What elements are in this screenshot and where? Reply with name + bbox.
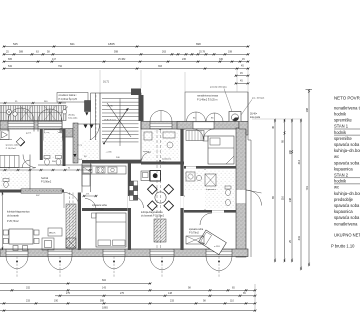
- south window SW5 axis dashed: [218, 257, 220, 278]
- svg-text:kuhinja-blagovaonica: kuhinja-blagovaonica: [7, 211, 30, 214]
- staircase east wall dark: [139, 95, 144, 121]
- entry door header line: [78, 123, 100, 125]
- svg-text:233: 233: [26, 300, 31, 303]
- dining chairs: [3, 230, 8, 235]
- south window SW4: [150, 251, 174, 256]
- bed1 double: [96, 213, 126, 247]
- svg-text:natkriveni: natkriveni: [162, 158, 171, 161]
- svg-text:STAN 2: STAN 2: [334, 173, 349, 178]
- dimension stub top row 6: [236, 82, 248, 84]
- door gap bath2 north: [186, 166, 196, 168]
- svg-text:P 14,61m2: P 14,61m2: [6, 148, 17, 150]
- dimension line right v3: [291, 119, 293, 262]
- predsoblje dotted floor: [185, 190, 205, 209]
- nightstand bed2: [203, 136, 208, 141]
- svg-text:kupaonica: kupaonica: [334, 166, 353, 171]
- door arc bath1: [22, 160, 30, 168]
- left edge vertical dim line: [2, 192, 4, 250]
- wall below wc pair: [38, 164, 92, 166]
- bed spavaca1 striped: [0, 156, 19, 168]
- south window SW1 axis dashed: [16, 257, 18, 278]
- bath partition line 2: [0, 167, 30, 169]
- extension line stair east: [140, 70, 142, 88]
- south window SW3: [103, 251, 125, 256]
- kitchen1 counter: [82, 166, 126, 174]
- east wall corner diagonal: [239, 122, 248, 136]
- svg-text:g=171: g=171: [26, 133, 31, 135]
- svg-text:275: 275: [120, 292, 125, 295]
- dimension stub top row 5: [236, 75, 248, 77]
- svg-text:kupaonica: kupaonica: [334, 209, 353, 214]
- annotation box omedjena trava: [57, 93, 88, 103]
- svg-text:263: 263: [162, 51, 167, 54]
- bed2 top right room: [208, 136, 234, 164]
- terrace strip diagonal braces: [20, 106, 56, 121]
- window W1 in north wall: [8, 123, 34, 128]
- wardrobe left edge with triangle: [0, 130, 9, 140]
- nightstand bed1: [92, 213, 97, 218]
- svg-text:169: 169: [32, 168, 35, 170]
- wall stan2 entry vertical: [180, 129, 183, 250]
- south window SW1 swing arcs: [6, 257, 17, 270]
- extension line right top: [252, 118, 302, 120]
- svg-text:UKUPNO NETO: UKUPNO NETO: [334, 233, 360, 238]
- svg-text:545: 545: [13, 42, 18, 46]
- dining table: [9, 229, 33, 244]
- north wall east segment: [141, 122, 185, 130]
- south window SW3 axis dashed: [113, 257, 115, 278]
- kitchen1 lower cabinet: [82, 174, 90, 186]
- svg-text:417: 417: [52, 58, 57, 61]
- dimension line bottom total 1865: [0, 310, 255, 312]
- svg-text:spavaća soba: spavaća soba: [92, 204, 107, 207]
- svg-text:P brutto 1.10: P brutto 1.10: [331, 244, 355, 249]
- south window SW4 swing arcs: [150, 257, 162, 270]
- svg-text:598: 598: [114, 51, 119, 54]
- svg-text:P 10,55m2: P 10,55m2: [92, 208, 104, 211]
- entry door leaf triangle 2: [90, 125, 94, 129]
- svg-text:kota poda: kota poda: [250, 116, 261, 119]
- svg-text:P 2,03m2 Šp 0,25: P 2,03m2 Šp 0,25: [59, 98, 78, 101]
- svg-text:90: 90: [68, 168, 70, 170]
- staircase top pier dark: [131, 89, 141, 96]
- svg-text:poc. dimnjak: poc. dimnjak: [252, 98, 265, 100]
- svg-text:28,40=: 28,40=: [250, 114, 258, 116]
- east wall outer skin: [247, 92, 249, 140]
- south window SW2 axis dashed: [59, 257, 61, 278]
- svg-text:ulaz: ulaz: [162, 162, 166, 164]
- south window SW5: [206, 251, 232, 256]
- svg-text:414: 414: [297, 159, 301, 164]
- svg-text:665: 665: [8, 58, 13, 61]
- chair diamond spavaca1: [16, 138, 24, 146]
- svg-text:1865: 1865: [102, 306, 108, 310]
- wc pair toilet B: [56, 156, 62, 159]
- svg-text:kuhinja–dn.bor: kuhinja–dn.bor: [334, 191, 360, 196]
- svg-text:28,40=: 28,40=: [68, 114, 75, 116]
- window W2 in north wall: [38, 123, 62, 128]
- svg-text:wc: wc: [334, 154, 339, 159]
- north wall west segment: [0, 121, 62, 129]
- svg-text:spavaća soba: spavaća soba: [189, 229, 204, 231]
- svg-text:spavaća soba: spavaća soba: [334, 215, 360, 220]
- extension line terrace west: [184, 72, 186, 92]
- door gap stan2 living: [128, 196, 131, 208]
- kitchen2 stove unit: [150, 171, 161, 182]
- bath2 wc: [225, 186, 231, 189]
- window W1 casement arcs up: [8, 108, 21, 121]
- svg-text:hodnik: hodnik: [334, 112, 347, 117]
- svg-text:110: 110: [280, 195, 284, 200]
- svg-text:omeđeno tratina i: omeđeno tratina i: [59, 94, 77, 97]
- sofa hatched along shaft: [66, 204, 76, 248]
- svg-text:441: 441: [297, 235, 301, 240]
- legend underline hodnik stan1: [334, 134, 360, 136]
- svg-text:363: 363: [158, 65, 163, 68]
- svg-text:532: 532: [8, 65, 13, 68]
- svg-text:602: 602: [102, 279, 107, 282]
- svg-text:330: 330: [219, 58, 224, 61]
- svg-text:190: 190: [288, 149, 292, 154]
- tv cabinet: [42, 238, 54, 250]
- wc pair toilet A: [44, 156, 50, 159]
- wall bath2 north: [184, 166, 236, 169]
- shaft X box: [66, 238, 76, 248]
- staircase flight treads: [102, 98, 139, 100]
- svg-text:236: 236: [182, 58, 187, 61]
- svg-text:predsoblje: predsoblje: [334, 197, 354, 202]
- svg-text:719: 719: [305, 185, 309, 190]
- drain circle with flag: [62, 110, 66, 114]
- wall bed1 north: [82, 208, 128, 211]
- svg-text:spavaća soba: spavaća soba: [334, 142, 360, 147]
- wall stan2 rooms north: [141, 162, 184, 165]
- svg-text:148: 148: [168, 292, 173, 295]
- terrace door arc 1: [187, 112, 197, 122]
- north wall pier at stair: [85, 101, 91, 112]
- dimension line right v1: [274, 119, 276, 262]
- svg-text:198: 198: [305, 107, 309, 112]
- svg-text:nenatkrivena terasa: nenatkrivena terasa: [197, 95, 219, 98]
- bath1 dotted floor: [44, 133, 62, 159]
- svg-text:kuhinja-blagovaonica: kuhinja-blagovaonica: [141, 212, 163, 214]
- south window SW2: [48, 251, 72, 256]
- svg-text:332: 332: [26, 287, 31, 290]
- svg-text:841: 841: [70, 42, 75, 46]
- east wall door gap: [237, 190, 246, 203]
- dimension line bottom row 4: [0, 302, 255, 304]
- dimension line bottom row 2: [0, 289, 255, 291]
- corridor dim 171: [84, 195, 96, 197]
- svg-text:190: 190: [54, 300, 59, 303]
- interior dim line hodnik: [0, 169, 92, 171]
- staircase enclosure: [100, 93, 141, 160]
- svg-text:110: 110: [230, 300, 234, 303]
- wardrobe X stan2 south: [186, 236, 204, 244]
- shaft dashed lines: [69, 193, 71, 251]
- terrace door gap and arcs: [193, 122, 214, 128]
- bath2 shower: [205, 174, 216, 186]
- svg-text:698: 698: [196, 42, 201, 46]
- dimension line right v2: [284, 119, 286, 262]
- svg-text:nenatkrivena te: nenatkrivena te: [334, 105, 360, 110]
- svg-text:+ 2,81: + 2,81: [106, 152, 113, 154]
- svg-text:25 382: 25 382: [118, 58, 126, 61]
- bottom extension line right end: [254, 284, 256, 311]
- svg-text:P 25,73m2: P 25,73m2: [7, 220, 19, 223]
- door arc hodnik to living: [64, 193, 80, 209]
- svg-text:198: 198: [228, 51, 233, 54]
- svg-text:kota poda: kota poda: [68, 116, 78, 119]
- door arc east exterior: [246, 190, 262, 206]
- svg-text:hodnik: hodnik: [334, 179, 347, 184]
- svg-text:spremište: spremište: [334, 136, 352, 141]
- window W3 casement arcs up: [150, 111, 161, 122]
- wall kupaonica-hodnik: [63, 129, 66, 166]
- door arc bed1: [85, 199, 96, 210]
- spot level marker upper: [85, 112, 88, 115]
- staircase center stringer: [119, 99, 121, 147]
- dimension line right v5 total: [308, 90, 310, 267]
- door gap bath2 south: [212, 210, 224, 212]
- entry door leaf triangle 1: [84, 125, 88, 129]
- bath2 washbasin: [196, 175, 201, 180]
- dimension line bottom row 3: [55, 295, 255, 297]
- door arc storage to kitchen2: [142, 152, 152, 162]
- svg-text:hodnik: hodnik: [334, 130, 347, 135]
- bath2 dotted floor: [185, 170, 235, 209]
- svg-text:598: 598: [100, 300, 105, 303]
- window W3 in north wall east: [150, 123, 172, 128]
- tree circle 1: [6, 109, 11, 114]
- svg-text:792: 792: [58, 65, 63, 68]
- corridor dotted floor: [82, 140, 99, 160]
- storage room dotted floor: [142, 130, 179, 160]
- south window SW5 swing arcs: [206, 257, 219, 271]
- svg-text:275: 275: [66, 292, 71, 295]
- door gap stan2 entry: [180, 196, 183, 208]
- svg-text:588: 588: [19, 51, 24, 54]
- wall inside bath2: [204, 169, 206, 210]
- wall spremiste stan2: [159, 129, 160, 162]
- extension line building east: [247, 70, 249, 92]
- wall kitchen north stan1: [82, 160, 141, 164]
- svg-text:spremište: spremište: [334, 118, 352, 123]
- svg-text:P 5,96m2: P 5,96m2: [41, 181, 52, 184]
- svg-text:hodnik: hodnik: [41, 177, 49, 180]
- svg-text:148: 148: [288, 197, 292, 202]
- south window SW3 swing arcs: [103, 257, 114, 270]
- svg-text:143: 143: [102, 287, 107, 290]
- extension line stair west: [99, 70, 101, 93]
- svg-text:kupaonica: kupaonica: [206, 189, 217, 191]
- staircase up arrow: [104, 108, 129, 144]
- terrace strip top dim line: [0, 102, 66, 104]
- south exterior wall: [0, 249, 248, 257]
- spot level marker lower: [73, 154, 76, 157]
- svg-text:spavaća soba: spavaća soba: [334, 160, 360, 165]
- tile shaft checker: [129, 181, 133, 186]
- round table stan2: [155, 192, 166, 203]
- svg-text:233: 233: [170, 300, 175, 303]
- svg-text:dn.boravak: dn.boravak: [7, 214, 20, 217]
- shower tray kupaonica1: [44, 130, 62, 141]
- wc room toilet: [3, 179, 9, 182]
- svg-text:postolje dimnjaka: postolje dimnjaka: [210, 86, 228, 89]
- svg-text:nenatkrivena: nenatkrivena: [334, 221, 358, 226]
- svg-text:+ 1,35: + 1,35: [107, 106, 114, 108]
- bed3 rotated: [199, 230, 227, 255]
- svg-text:kuhinja–dn.bor: kuhinja–dn.bor: [334, 148, 360, 153]
- door arc spavaca1: [23, 155, 36, 168]
- wardrobe stan2 hatched: [154, 219, 166, 242]
- south wall of terrace: [177, 122, 239, 130]
- wc dotted floor: [1, 170, 29, 188]
- kitchen1 sink: [108, 167, 117, 173]
- tree circle 2: [13, 112, 17, 116]
- svg-text:P 3,49m2 Š 9,25 m: P 3,49m2 Š 9,25 m: [197, 99, 217, 102]
- terrace door arc 2: [206, 113, 215, 122]
- dimension line top total 1865: [4, 46, 248, 48]
- kitchen1 fridge: [83, 167, 92, 173]
- dimension line top row 4: [4, 68, 248, 70]
- terrace strip top-left with balusters: [0, 106, 66, 121]
- wall bath2 south: [184, 210, 236, 213]
- dimension line top row 3: [4, 61, 248, 63]
- storage fixtures stan2 north: [144, 132, 152, 140]
- kitchen2 sink unit: [141, 171, 150, 181]
- dashed section lines stan2: [156, 130, 158, 250]
- wall shaft east of living: [78, 193, 81, 251]
- dimension line right v4: [300, 119, 302, 270]
- wall hodnik-living horizontal: [0, 190, 64, 193]
- svg-text:16,71: 16,71: [103, 81, 110, 84]
- svg-text:P 9,79m2: P 9,79m2: [189, 232, 200, 234]
- staircase down arrow: [107, 103, 131, 137]
- svg-text:MB-DK: MB-DK: [49, 233, 56, 235]
- extension line chimney: [236, 70, 238, 92]
- closet striped stan2 north: [186, 131, 204, 141]
- svg-text:spavaća soba: spavaća soba: [334, 203, 360, 208]
- east exterior wall: [236, 128, 246, 257]
- staircase corridor dashed axis: [95, 95, 97, 160]
- hatch band on hodnik wall: [21, 189, 62, 193]
- dimension line bottom row 1: [0, 283, 150, 285]
- svg-text:ø 153: ø 153: [214, 246, 220, 248]
- svg-text:STAN 1: STAN 1: [334, 124, 349, 129]
- entry door swing arc: [82, 125, 100, 143]
- wall spavaca-kupaonica: [40, 129, 43, 160]
- kitchen1 stove: [96, 167, 105, 173]
- svg-text:1865: 1865: [108, 42, 115, 46]
- bath partition line: [29, 155, 31, 190]
- svg-text:25 78: 25 78: [199, 51, 206, 54]
- bath2 bidet: [226, 199, 231, 205]
- chimney base square: [229, 112, 241, 124]
- north wall jog block: [60, 129, 73, 138]
- chairs round table: [147, 184, 157, 194]
- svg-text:wc: wc: [334, 185, 339, 190]
- south window SW2 swing arcs: [48, 257, 60, 270]
- svg-text:dn.boravak P 19,55m2: dn.boravak P 19,55m2: [141, 215, 165, 218]
- window W2 casement arcs up: [38, 109, 50, 121]
- svg-text:IZLAZ P 1,01: IZLAZ P 1,01: [104, 119, 117, 122]
- entry side wall ab zid: [73, 123, 78, 163]
- svg-text:sprem.: sprem.: [143, 150, 150, 153]
- washer stan2: [186, 172, 195, 181]
- staircase west corridor wall: [90, 93, 92, 160]
- dimension line top row 2: [4, 53, 248, 55]
- wall stan1-stan2 vertical: [128, 160, 131, 250]
- corridor wall lines stan1: [81, 164, 83, 193]
- couch MB-DK: [48, 228, 62, 236]
- svg-text:92: 92: [8, 168, 10, 170]
- svg-text:spavaća soba: spavaća soba: [6, 144, 20, 146]
- legend underline hodnik stan2: [334, 183, 360, 185]
- svg-text:NETO POVRŠINE: NETO POVRŠINE: [334, 96, 360, 101]
- south window SW1: [6, 251, 28, 256]
- south window SW4 axis dashed: [161, 257, 163, 278]
- terrace north-east outline: [185, 92, 248, 122]
